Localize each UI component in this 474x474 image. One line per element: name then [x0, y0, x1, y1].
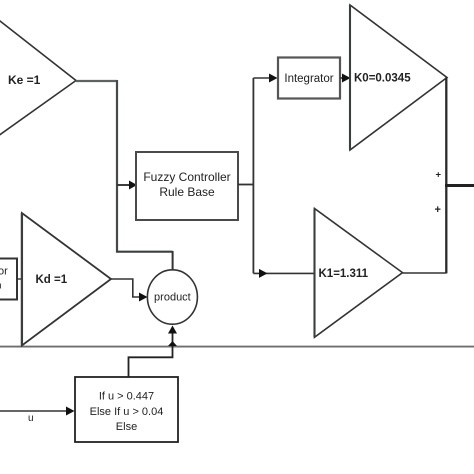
svg-text:Fuzzy Controller: Fuzzy Controller: [143, 170, 230, 184]
svg-text:K1=1.311: K1=1.311: [319, 268, 369, 280]
svg-text:product: product: [154, 292, 191, 304]
svg-text:Else If u > 0.04: Else If u > 0.04: [90, 406, 164, 418]
svg-text:Kd =1: Kd =1: [36, 274, 68, 286]
svg-text:Ke =1: Ke =1: [8, 73, 41, 87]
svg-text:Else: Else: [116, 421, 137, 433]
svg-text:Integrator: Integrator: [284, 73, 333, 85]
svg-text:K0=0.0345: K0=0.0345: [354, 73, 411, 85]
svg-text:If u > 0.447: If u > 0.447: [99, 391, 154, 403]
svg-text:u: u: [28, 413, 34, 424]
svg-text:or: or: [0, 266, 8, 278]
svg-text:u: u: [0, 281, 2, 291]
svg-text:+: +: [436, 170, 442, 181]
svg-text:Rule Base: Rule Base: [159, 185, 215, 199]
svg-text:+: +: [435, 204, 441, 216]
